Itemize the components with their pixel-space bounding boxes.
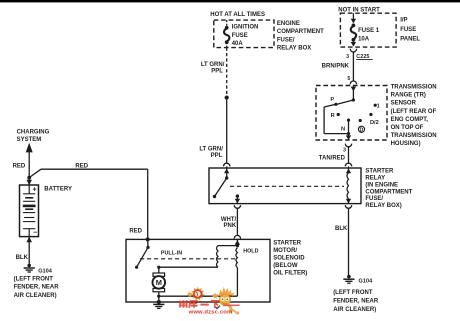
svg-text:BRN/PNK: BRN/PNK	[322, 64, 350, 70]
svg-text:5: 5	[347, 76, 350, 82]
svg-text:FUSE: FUSE	[400, 27, 416, 33]
svg-text:RED: RED	[13, 164, 26, 170]
svg-text:+: +	[33, 187, 37, 194]
svg-text:MOTOR/: MOTOR/	[273, 248, 297, 254]
svg-text:ON TOP OF: ON TOP OF	[391, 125, 424, 131]
svg-text:R: R	[331, 113, 335, 119]
svg-text:PNK: PNK	[224, 223, 237, 229]
svg-text:RELAY: RELAY	[365, 175, 385, 181]
svg-text:M: M	[156, 278, 162, 287]
svg-text:BLK: BLK	[335, 226, 348, 232]
svg-text:CHARGING: CHARGING	[17, 129, 50, 135]
svg-text:FENDER, NEAR: FENDER, NEAR	[333, 299, 379, 305]
svg-text:PANEL: PANEL	[400, 36, 420, 42]
svg-text:(LEFT REAR OF: (LEFT REAR OF	[391, 109, 437, 115]
svg-text:COMPARTMENT: COMPARTMENT	[277, 29, 324, 35]
svg-text:SYSTEM: SYSTEM	[17, 137, 42, 143]
svg-text:PPL: PPL	[211, 153, 223, 159]
svg-text:RED: RED	[75, 163, 88, 169]
svg-text:ENG COMPT,: ENG COMPT,	[391, 117, 429, 123]
svg-text:HOLD: HOLD	[243, 249, 258, 255]
svg-text:LT GRN/: LT GRN/	[199, 146, 223, 152]
svg-text:(LEFT FRONT: (LEFT FRONT	[14, 276, 54, 282]
svg-text:TRANSMISSION: TRANSMISSION	[391, 133, 437, 139]
svg-text:STARTER: STARTER	[365, 168, 394, 174]
svg-text:(LEFT FRONT: (LEFT FRONT	[333, 290, 373, 296]
svg-text:LT GRN/: LT GRN/	[201, 62, 225, 68]
svg-text:D/2: D/2	[370, 120, 379, 126]
svg-text:BATTERY: BATTERY	[44, 187, 72, 193]
svg-text:3: 3	[343, 147, 346, 153]
svg-text:1: 1	[377, 104, 380, 110]
svg-text:TRANSMISSION: TRANSMISSION	[391, 85, 437, 91]
svg-text:OIL FILTER): OIL FILTER)	[273, 270, 307, 276]
svg-text:D: D	[360, 128, 364, 134]
svg-text:TAN/RED: TAN/RED	[319, 156, 346, 162]
svg-text:(IN ENGINE: (IN ENGINE	[365, 182, 398, 188]
svg-text:HOT AT ALL TIMES: HOT AT ALL TIMES	[210, 12, 265, 18]
svg-text:RANGE (TR): RANGE (TR)	[391, 93, 426, 99]
svg-text:3: 3	[346, 54, 349, 60]
svg-text:FUSE/: FUSE/	[365, 196, 383, 202]
svg-text:FUSE/: FUSE/	[277, 37, 295, 43]
svg-text:(BELOW: (BELOW	[273, 263, 298, 269]
svg-text:BLK: BLK	[16, 255, 29, 261]
svg-text:40A: 40A	[232, 41, 244, 47]
svg-text:FENDER, NEAR: FENDER, NEAR	[14, 284, 60, 290]
svg-text:P: P	[330, 97, 334, 103]
svg-text:G104: G104	[38, 268, 53, 274]
svg-text:−: −	[33, 230, 37, 237]
svg-text:PPL: PPL	[211, 68, 223, 74]
svg-text:PULL-IN: PULL-IN	[161, 251, 182, 257]
svg-text:HOUSING): HOUSING)	[391, 141, 421, 147]
svg-text:N: N	[341, 127, 345, 133]
svg-text:I/P: I/P	[400, 17, 407, 23]
svg-text:www.dzsc.com: www.dzsc.com	[188, 309, 233, 315]
svg-text:AIR CLEANER): AIR CLEANER)	[14, 293, 57, 299]
svg-text:SOLENOID: SOLENOID	[273, 255, 305, 261]
svg-text:FUSE 1: FUSE 1	[358, 28, 380, 34]
svg-text:IGNITION: IGNITION	[232, 25, 259, 31]
svg-text:RELAY BOX: RELAY BOX	[277, 45, 311, 51]
svg-text:RELAY BOX): RELAY BOX)	[365, 203, 401, 209]
svg-text:10A: 10A	[358, 36, 370, 42]
svg-text:RED: RED	[129, 228, 142, 234]
svg-text:SENSOR: SENSOR	[391, 101, 417, 107]
svg-text:G104: G104	[359, 279, 374, 285]
svg-text:STARTER: STARTER	[273, 240, 302, 246]
svg-text:AIR CLEANER): AIR CLEANER)	[333, 307, 376, 313]
svg-text:COMPARTMENT: COMPARTMENT	[365, 189, 412, 195]
svg-text:FUSE: FUSE	[232, 33, 248, 39]
svg-text:ENGINE: ENGINE	[277, 21, 300, 27]
